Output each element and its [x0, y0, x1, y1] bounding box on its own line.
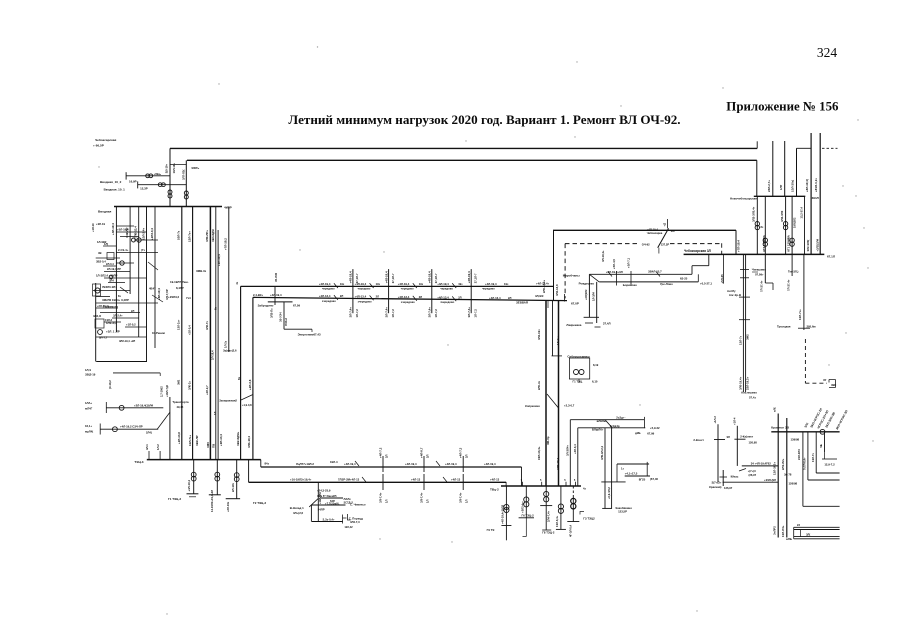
svg-text:+4Л-13: +4Л-13 — [490, 477, 500, 481]
svg-text:+2Л-0,4: +2Л-0,4 — [573, 444, 577, 454]
svg-text:+4Л-19,4: +4Л-19,4 — [349, 271, 353, 283]
svg-text:ЗЛ7-ЛЗ(: ЗЛ7-ЛЗ( — [181, 170, 185, 180]
svg-text:+2Л-13,8: +2Л-13,8 — [177, 432, 181, 444]
svg-text:+ 66,5Р: + 66,5Р — [93, 144, 104, 148]
svg-text:Вводная_10_1: Вводная_10_1 — [104, 187, 126, 191]
svg-text:2Л0-4з: 2Л0-4з — [537, 380, 541, 390]
svg-text:+4Л-19,4: +4Л-19,4 — [384, 271, 388, 283]
svg-text:2Л-0,4: 2Л-0,4 — [106, 262, 114, 266]
svg-text:394Л: 394Л — [812, 196, 819, 200]
svg-text:1ЗЛ-ЛЗ+: 1ЗЛ-ЛЗ+ — [781, 525, 785, 537]
svg-text:16,9Р: 16,9Р — [129, 179, 137, 183]
svg-text:С. Чеменсо: С. Чеменсо — [350, 503, 366, 507]
svg-text:З5-ЛЗ0: З5-ЛЗ0 — [274, 272, 278, 282]
svg-text:12Л-7з+: 12Л-7з+ — [187, 231, 191, 242]
svg-text:В-Зклад 1: В-Зклад 1 — [290, 506, 304, 510]
svg-text:8Л-7,7: 8Л-7,7 — [99, 336, 108, 340]
svg-text:07,09+: 07,09+ — [755, 273, 764, 277]
svg-text:ЗЛ: ЗЛ — [727, 435, 731, 439]
svg-text:2Л: 2Л — [458, 295, 461, 299]
svg-text:2Л-19,4 ЛР: 2Л-19,4 ЛР — [107, 267, 121, 271]
svg-text:+4Л-13: +4Л-13 — [350, 477, 360, 481]
svg-text:+4Л-13: +4Л-13 — [411, 477, 421, 481]
svg-text:1Л: 1Л — [426, 499, 430, 503]
svg-text:+7,7(21м)6,: +7,7(21м)6, — [325, 502, 340, 506]
svg-text:ЗЛ2-19,4 +2Л: ЗЛ2-19,4 +2Л — [119, 339, 135, 343]
svg-text:7з4: 7з4 — [186, 296, 191, 300]
svg-text:ЗМ0: ЗМ0 — [206, 442, 210, 448]
svg-text:ЗВ4Л-15,7: ЗВ4Л-15,7 — [648, 270, 662, 274]
svg-text:ЗЛ(: ЗЛ( — [806, 533, 810, 537]
svg-text:+4Л-13: +4Л-13 — [451, 477, 461, 481]
svg-text:ЗЛ-7,4+: ЗЛ-7,4+ — [384, 307, 388, 318]
svg-text:Транспорта: Транспорта — [172, 400, 189, 404]
svg-text:10-Реним: 10-Реним — [152, 331, 165, 335]
svg-text:ЗЛ4-19,4: ЗЛ4-19,4 — [247, 436, 251, 448]
svg-text:ЗЛ2-7з: ЗЛ2-7з — [205, 321, 209, 330]
svg-text:Чебоксарская 3Л: Чебоксарская 3Л — [684, 249, 712, 253]
svg-text:ТВц-2: ТВц-2 — [490, 488, 499, 492]
svg-text:2Л4-7,4+: 2Л4-7,4+ — [547, 510, 551, 522]
svg-text:ГЗ ТЭ: ГЗ ТЭ — [487, 528, 495, 532]
svg-text:+5Л-19,4: +5Л-19,4 — [117, 228, 129, 232]
svg-text:+0,5-27,1: +0,5-27,1 — [700, 282, 712, 286]
svg-text:27,1Л-7: 27,1Л-7 — [473, 273, 477, 283]
svg-text:+ЗЛ-19: +ЗЛ-19 — [96, 222, 105, 226]
svg-text:67,99: 67,99 — [647, 432, 654, 436]
svg-text:ЗЛ2: ЗЛ2 — [803, 422, 809, 429]
svg-text:1Л7: 1Л7 — [779, 184, 783, 190]
svg-text:1Л: 1Л — [465, 499, 469, 503]
svg-text:2Л: 2Л — [340, 294, 343, 298]
svg-text:(7з: (7з — [141, 248, 145, 252]
svg-text:19Л-13,4+: 19Л-13,4+ — [537, 446, 541, 460]
svg-text:Новочебоксарская: Новочебоксарская — [730, 197, 757, 201]
svg-text:ЗЛ-7,4+: ЗЛ-7,4+ — [379, 492, 383, 503]
svg-text:Приложение № 156: Приложение № 156 — [726, 100, 839, 114]
svg-text:Маробчаны: Маробчаны — [563, 273, 580, 277]
svg-text:67,43: 67,43 — [314, 332, 321, 336]
svg-text:Г2 ТЭЦ-3: Г2 ТЭЦ-3 — [253, 501, 266, 505]
svg-text:7ре-Лово: 7ре-Лово — [660, 282, 673, 286]
svg-text:19з: 19з — [504, 282, 509, 286]
svg-text:19з: 19з — [376, 282, 381, 286]
svg-text:67,09: 67,09 — [293, 303, 300, 307]
svg-text:ЗВ(2-19: ЗВ(2-19 — [85, 373, 96, 377]
svg-text:ЗВС: ЗВС — [831, 383, 836, 387]
svg-text:ТЭЦ-3: ТЭЦ-3 — [134, 460, 143, 464]
svg-text:4з: 4з — [583, 487, 586, 491]
svg-text:ЗЛ2-Лз: ЗЛ2-Лз — [270, 308, 274, 318]
svg-text:+4Л-19,4: +4Л-19,4 — [647, 227, 659, 231]
svg-text:2-СЗ-4+: 2-СЗ-4+ — [118, 248, 129, 252]
svg-text:8Г25: 8Г25 — [639, 478, 646, 482]
svg-text:324: 324 — [817, 45, 838, 60]
svg-text:ЗЛ-ЗЛ4+: ЗЛ-ЗЛ4+ — [566, 445, 570, 456]
svg-text:чередово: чередово — [358, 288, 371, 291]
svg-text:+19Л-ЗЛ2: +19Л-ЗЛ2 — [318, 492, 322, 504]
svg-text:+4Л-19,4: +4Л-19,4 — [319, 282, 331, 286]
svg-text:ЗЛ2-ЗЛ0: ЗЛ2-ЗЛ0 — [780, 210, 784, 222]
svg-text:19-19Л7 Реш.: 19-19Л7 Реш. — [170, 280, 189, 284]
svg-text:57,4з: 57,4з — [749, 396, 756, 400]
svg-text:2Л-19з: 2Л-19з — [231, 482, 235, 492]
svg-text:+19Л-7д5: +19Л-7д5 — [165, 384, 169, 397]
svg-text:+8ЗЛ-З,1з: +8ЗЛ-З,1з — [814, 178, 818, 192]
svg-text:+4Л-9,7: +4Л-9,7 — [420, 447, 424, 458]
svg-text:Энергоним: Энергоним — [298, 332, 314, 336]
svg-text:ЗМ2: ЗМ2 — [746, 334, 750, 340]
svg-text:27,1Л-7: 27,1Л-7 — [391, 273, 395, 283]
svg-text:+4Л-19,4: +4Л-19,4 — [484, 462, 496, 466]
svg-text:ЗЛ0-ЛР+: ЗЛ0-ЛР+ — [205, 230, 209, 242]
svg-text:54ЛР: 54ЛР — [318, 507, 325, 511]
svg-text:ЗКЛ-ЧГРЭС-ЗЛ: ЗКЛ-ЧГРЭС-ЗЛ — [835, 409, 849, 430]
svg-text:ЗМ2: ЗМ2 — [177, 379, 181, 385]
svg-text:АТ1 125МВА: АТ1 125МВА — [787, 235, 791, 252]
svg-text:Забродино: Забродино — [258, 303, 274, 307]
svg-text:1Л-7,2: 1Л-7,2 — [473, 309, 477, 318]
svg-text:+2,3-0,7: +2,3-0,7 — [564, 404, 575, 408]
svg-text:1Л-ЗЛ4: 1Л-ЗЛ4 — [592, 291, 596, 301]
svg-text:ЛЗб-2: ЛЗб-2 — [284, 318, 288, 326]
svg-text:+2Л-19,4(19Л4: +2Л-19,4(19Л4 — [134, 403, 154, 407]
svg-text:137,2Р: 137,2Р — [661, 243, 670, 247]
svg-text:ЗВ2-6ДМ+: ЗВ2-6ДМ+ — [236, 431, 240, 446]
svg-text:19з: 19з — [458, 282, 463, 286]
svg-text:2з: 2з — [235, 281, 239, 284]
svg-text:+4Л-19,4+19ЛЗ: +4Л-19,4+19ЛЗ — [500, 504, 504, 524]
svg-text:8,19: 8,19 — [593, 363, 599, 367]
svg-text:2Л: 2Л — [465, 454, 469, 458]
svg-text:2Л: 2Л — [376, 295, 379, 299]
svg-text:+4Л-13,4: +4Л-13,4 — [355, 295, 367, 299]
svg-text:8з: 8з — [761, 225, 764, 229]
svg-text:4И5Р: 4И5Р — [224, 206, 232, 210]
svg-text:+7Л-19,4: +7Л-19,4 — [737, 240, 741, 252]
svg-text:Кйхас: Кйхас — [731, 475, 739, 479]
svg-text:+1,9-0,8: +1,9-0,8 — [242, 403, 252, 407]
svg-text:З00Гь: З00Гь — [191, 166, 199, 170]
svg-text:1ЗЛ-ЗЛ2+: 1ЗЛ-ЗЛ2+ — [772, 462, 776, 475]
svg-text:2Л4(: 2Л4( — [146, 431, 152, 435]
svg-text:+4,1+17,5: +4,1+17,5 — [625, 471, 638, 475]
svg-text:З(0-19+: З(0-19+ — [164, 163, 168, 173]
svg-text:+4Л-7,2: +4Л-7,2 — [379, 447, 383, 458]
svg-text:+5Л-4,5: +5Л-4,5 — [612, 259, 616, 269]
svg-text:ЗЛ4-13,8: ЗЛ4-13,8 — [555, 284, 559, 296]
svg-text:Троицкая: Троицкая — [777, 325, 791, 329]
svg-text:+(2: +(2 — [664, 222, 667, 226]
svg-text:+4Л-2,7: +4Л-2,7 — [205, 385, 209, 395]
svg-text:Вводная_10_2: Вводная_10_2 — [100, 180, 122, 184]
svg-text:ЗЕВВАЯ: ЗЕВВАЯ — [516, 301, 528, 305]
svg-text:1ЗЛ-7з+: 1ЗЛ-7з+ — [798, 309, 802, 320]
svg-text:126,98: 126,98 — [749, 440, 758, 444]
svg-text:1з: 1з — [621, 467, 624, 471]
svg-text:(67,46: (67,46 — [650, 477, 658, 481]
svg-text:ЗЛ0-19,4+: ЗЛ0-19,4+ — [738, 376, 742, 390]
svg-text:2,7-19б2: 2,7-19б2 — [159, 386, 163, 397]
svg-text:ЗМ2Л0 19Л4+ З,4ЛР: ЗМ2Л0 19Л4+ З,4ЛР — [102, 298, 129, 302]
svg-text:+4Л-13,4: +4Л-13,4 — [398, 295, 410, 299]
svg-text:+4Л-13,4: +4Л-13,4 — [319, 294, 331, 298]
svg-text:+4Л-19,4: +4Л-19,4 — [344, 462, 356, 466]
svg-text:ЗЛ4-7,3: ЗЛ4-7,3 — [350, 520, 360, 524]
svg-text:5: 5 — [574, 479, 576, 482]
svg-text:12,3Р: 12,3Р — [140, 187, 148, 191]
svg-text:+24,3-25,9: +24,3-25,9 — [317, 489, 331, 493]
svg-text:вЛ(: вЛ( — [772, 407, 776, 412]
svg-text:+ЗЛ-7,1: +ЗЛ-7,1 — [627, 257, 631, 268]
svg-text:зчередово: зчередово — [322, 300, 336, 303]
svg-text:1Л-7,2: 1Л-7,2 — [355, 309, 359, 318]
svg-text:+1Л-0,2: +1Л-0,2 — [126, 323, 136, 327]
svg-text:1Л-ЗВ2: 1Л-ЗВ2 — [97, 240, 107, 244]
svg-text:19з: 19з — [419, 282, 424, 286]
svg-text:чередово: чередово — [482, 288, 495, 291]
svg-text:Лакреевка: Лакреевка — [566, 323, 581, 327]
svg-text:+2Л3-0,4: +2Л3-0,4 — [150, 228, 154, 240]
svg-text:2Л: 2Л — [508, 296, 511, 300]
svg-text:34 +4Л-19,4Г62: 34 +4Л-19,4Г62 — [751, 462, 772, 466]
svg-text:2Л: 2Л — [419, 295, 422, 299]
svg-text:ЗЛ-2,4+: ЗЛ-2,4+ — [113, 314, 123, 318]
svg-text:16,1+: 16,1+ — [85, 424, 92, 428]
svg-text:13,2-37,4: 13,2-37,4 — [800, 207, 804, 219]
svg-text:чередово: чередово — [440, 288, 453, 291]
svg-text:зчередово: зчередово — [401, 301, 415, 304]
svg-text:+1Л-2: +1Л-2 — [713, 416, 717, 424]
svg-text:+4Л-19,4: +4Л-19,4 — [485, 282, 497, 286]
svg-text:ЗЛ-7,4+: ЗЛ-7,4+ — [459, 492, 463, 503]
svg-text:1Л-7з+: 1Л-7з+ — [556, 336, 560, 345]
svg-text:(26,97: (26,97 — [749, 473, 757, 477]
svg-text:ЗЛ4: ЗЛ4 — [109, 279, 114, 283]
svg-text:1ЗЛ-2з+: 1ЗЛ-2з+ — [177, 319, 181, 330]
svg-text:+(7+(3: +(7+(3 — [748, 469, 756, 473]
svg-text:1ЛА+: 1ЛА+ — [85, 401, 93, 405]
svg-text:1ЗЛ-7з: 1ЗЛ-7з — [811, 453, 815, 462]
svg-text:1ЛЗ+0,2: 1ЛЗ+0,2 — [106, 321, 117, 325]
svg-text:ЗВ4-6ДМ: ЗВ4-6ДМ — [211, 229, 215, 242]
svg-text:Заовражная2: Заовражная2 — [219, 399, 237, 403]
svg-text:ЗЛ-7,4+: ЗЛ-7,4+ — [467, 307, 471, 318]
svg-text:ЗМВ-Зз: ЗМВ-Зз — [196, 269, 207, 273]
svg-text:2,4-ВЗ+: 2,4-ВЗ+ — [253, 293, 264, 297]
svg-text:2Л-19,4: 2Л-19,4 — [211, 350, 215, 360]
svg-text:139/98: 139/98 — [791, 438, 800, 442]
svg-text:+1Л-19: +1Л-19 — [91, 223, 95, 232]
svg-text:1Л-2з: 1Л-2з — [224, 340, 228, 348]
svg-text:37,4Л: 37,4Л — [603, 322, 611, 326]
svg-text:Летний минимум нагрузок 2020 г: Летний минимум нагрузок 2020 год. Вариан… — [288, 112, 680, 127]
svg-text:+7Л-19,2: +7Л-19,2 — [224, 238, 228, 250]
svg-text:19Л-4: 19Л-4 — [330, 460, 338, 464]
svg-text:2Л0-13,4+: 2Л0-13,4+ — [542, 280, 546, 293]
svg-text:+ЗЛ_1 ,ЛР: +ЗЛ_1 ,ЛР — [106, 330, 120, 334]
svg-text:Тек-ЗЛ,): Тек-ЗЛ,) — [788, 270, 798, 274]
svg-text:Чебоксарка: Чебоксарка — [647, 231, 663, 235]
svg-text:1Л: 1Л — [385, 499, 389, 503]
svg-text:Г8 ТЭЦ-2: Г8 ТЭЦ-2 — [542, 530, 555, 534]
svg-text:19з: 19з — [340, 282, 345, 286]
svg-text:6З-25: 6З-25 — [680, 277, 688, 281]
svg-text:Зм 78: Зм 78 — [784, 473, 792, 477]
svg-text:+5,9-22: +5,9-22 — [650, 426, 660, 430]
svg-text:З+ЛР2: З+ЛР2 — [772, 526, 776, 535]
svg-text:ЗЛ2-ЗЛ0(: ЗЛ2-ЗЛ0( — [806, 240, 810, 252]
svg-text:чередово: чередово — [401, 288, 414, 291]
svg-text:1Л-ЗЛ2,4 +19ЛР: 1Л-ЗЛ2,4 +19ЛР — [96, 274, 117, 278]
svg-text:+4Л-19,4: +4Л-19,4 — [355, 282, 367, 286]
svg-text:4Г-ЗЛ-0,4: 4Г-ЗЛ-0,4 — [568, 524, 572, 537]
svg-text:84з: 84з — [265, 462, 270, 466]
svg-text:126,97: 126,97 — [724, 486, 733, 490]
svg-text:ЗЛ,ЖЗ: ЗЛ,ЖЗ — [535, 294, 544, 298]
svg-text:+2Л-3,8: +2Л-3,8 — [248, 379, 252, 390]
svg-text:+8Л-19,4(: +8Л-19,4( — [805, 179, 809, 192]
svg-text:2Л: 2Л — [131, 309, 134, 313]
svg-text:2сЗд4р: 2сЗд4р — [610, 424, 620, 428]
svg-text:1ЗЛ-З0з(: 1ЗЛ-З0з( — [791, 180, 795, 192]
svg-text:дИБ: дИБ — [635, 431, 641, 435]
svg-text:8,4ЛР: 8,4ЛР — [176, 286, 184, 290]
svg-text:5: 5 — [521, 479, 523, 482]
svg-text:+2Л-19з: +2Л-19з — [226, 501, 230, 512]
svg-text:Борисово: Борисово — [623, 283, 637, 287]
svg-text:24Л-2ЛЗ: 24Л-2ЛЗ — [797, 449, 801, 460]
svg-text:зчередово: зчередово — [440, 301, 454, 304]
svg-text:10Л-7з: 10Л-7з — [177, 230, 181, 240]
svg-text:АТ2 125МВА: АТ2 125МВА — [762, 235, 766, 252]
svg-text:2-Ка(лект: 2-Ка(лект — [740, 435, 753, 439]
svg-text:вЛБ: вЛБ — [786, 537, 792, 541]
svg-text:С. Порецд: С. Порецд — [349, 516, 363, 520]
svg-text:Чигашево: Чигашево — [752, 268, 766, 272]
svg-text:1Л-7,2: 1Л-7,2 — [434, 309, 438, 318]
svg-text:67,0Р: 67,0Р — [571, 302, 579, 306]
svg-text:+09зь: +09зь — [154, 172, 162, 176]
svg-text:З,Зз-0,4+: З,Зз-0,4+ — [323, 518, 335, 522]
svg-text:2Л: 2Л — [385, 454, 389, 458]
svg-text:Копрекино: Копрекино — [525, 404, 540, 408]
svg-text:+ЗЛ2-4з+: +ЗЛ2-4з+ — [520, 501, 524, 513]
svg-text:1Л: 1Л — [213, 412, 217, 415]
svg-text:+4Л-7,3: +4Л-7,3 — [459, 447, 463, 458]
svg-text:ЗЛ-7,4+: ЗЛ-7,4+ — [420, 492, 424, 503]
svg-text:+1Л-4: +1Л-4 — [733, 417, 737, 425]
svg-text:Вводная: Вводная — [98, 210, 111, 214]
svg-text:24Л-2,7+: 24Л-2,7+ — [767, 180, 771, 192]
svg-text:З5-УЗЧ: З5-УЗЧ — [279, 312, 283, 322]
svg-text:7с7Л-6,4+: 7с7Л-6,4+ — [803, 457, 807, 470]
svg-text:1Л-7,2: 1Л-7,2 — [391, 309, 395, 318]
svg-text:ЗЛ-7,4+: ЗЛ-7,4+ — [349, 307, 353, 318]
svg-text:Красная): Красная) — [709, 485, 721, 489]
svg-text:Г1 ТЭЦ-3: Г1 ТЭЦ-3 — [168, 497, 181, 501]
svg-text:2ЛЗ-Л2+: 2ЛЗ-Л2+ — [781, 458, 785, 470]
svg-text:+2Л(ЗЛ2: +2Л(ЗЛ2 — [584, 289, 588, 300]
svg-text:+4Л-19,4: +4Л-19,4 — [467, 271, 471, 283]
svg-text:+ЗЛ2(ЗЛ4: +ЗЛ2(ЗЛ4 — [815, 239, 819, 252]
svg-text:+1Л-19,4: +1Л-19,4 — [217, 254, 221, 266]
svg-text:+4Л-19,4: +4Л-19,4 — [398, 282, 410, 286]
svg-text:+4Л-19,4: +4Л-19,4 — [111, 223, 115, 235]
svg-text:ГЗ ТЭЦ2: ГЗ ТЭЦ2 — [583, 517, 595, 521]
svg-text:+ЗЗЛ-(9Л: +ЗЗЛ-(9Л — [764, 478, 776, 482]
svg-text:7Л-27,4+: 7Л-27,4+ — [759, 280, 763, 292]
svg-text:мЛ4Г: мЛ4Г — [85, 407, 93, 411]
svg-text:+4Л-13,4: +4Л-13,4 — [489, 296, 501, 300]
svg-text:Чебоксарская: Чебоксарская — [95, 138, 117, 142]
svg-text:ЗЛ2-ЗЛ0,4+: ЗЛ2-ЗЛ0,4+ — [752, 206, 756, 222]
svg-text:126/98: 126/98 — [789, 482, 798, 486]
svg-text:ЗЛ4-19з: ЗЛ4-19з — [537, 329, 541, 340]
svg-text:ЗЛ0-2з: ЗЛ0-2з — [187, 381, 191, 390]
svg-text:Горремонт: Горремонт — [103, 305, 119, 309]
svg-text:ЗВ2-0,4: ЗВ2-0,4 — [96, 260, 106, 264]
svg-text:1ЗЛ-2,4+: 1ЗЛ-2,4+ — [141, 228, 145, 240]
svg-text:49,45: 49,45 — [177, 405, 184, 409]
svg-text:2ЗЛ-19,2+: 2ЗЛ-19,2+ — [746, 376, 750, 390]
svg-text:ЗВ: ЗВ — [98, 251, 102, 255]
svg-text:ЛцЛ77+19Л-2: ЛцЛ77+19Л-2 — [296, 462, 314, 466]
svg-text:Зу(ево(2,6: Зу(ево(2,6 — [223, 349, 237, 353]
svg-text:1Л,З: 1Л,З — [85, 368, 91, 372]
svg-text:12,9-7,2: 12,9-7,2 — [824, 463, 835, 467]
svg-text:+2ЗЛ3,2: +2ЗЛ3,2 — [168, 295, 179, 299]
svg-text:+0,9-ЗЛ,2: +0,9-ЗЛ,2 — [607, 487, 611, 499]
svg-text:2Л: 2Л — [426, 454, 430, 458]
svg-text:7В2Л0-ЗЛ4: 7В2Л0-ЗЛ4 — [102, 285, 117, 289]
svg-text:7Л-27,4+: 7Л-27,4+ — [786, 279, 790, 291]
svg-text:(З-19,2: (З-19,2 — [108, 380, 112, 389]
svg-text:ЗЛ0-19,4: ЗЛ0-19,4 — [556, 458, 560, 470]
svg-text:1ЗЛ-7з+: 1ЗЛ-7з+ — [188, 435, 192, 446]
svg-text:7ЛЗР-2М: 7ЛЗР-2М — [338, 478, 351, 482]
svg-text:мрЛ4(: мрЛ4( — [85, 429, 93, 433]
svg-text:4В47: 4В47 — [149, 287, 156, 291]
svg-text:ЧБ: ЧБ — [819, 444, 823, 448]
svg-text:ЗЛ4,О: ЗЛ4,О — [93, 314, 102, 318]
svg-text:+1б-19ЛЗ+19,4+: +1б-19ЛЗ+19,4+ — [290, 478, 312, 482]
svg-text:14-19ЛЗ+19,4+2Л: 14-19ЛЗ+19,4+2Л — [210, 490, 214, 512]
svg-text:2сЗд+-: 2сЗд+- — [616, 416, 625, 420]
svg-text:23: 23 — [797, 523, 800, 527]
svg-text:Альгешево: Альгешево — [741, 391, 757, 395]
svg-text:зчередово: зчередово — [358, 300, 372, 303]
svg-text:ЗУ: ЗУ — [823, 378, 827, 382]
svg-text:5: 5 — [540, 479, 542, 482]
svg-text:ЗЛ-19,4+: ЗЛ-19,4+ — [601, 250, 605, 262]
svg-text:ПВ: ПВ — [211, 444, 215, 448]
svg-text:+9Л-13,4: +9Л-13,4 — [219, 434, 223, 446]
svg-text:ОЧ-92: ОЧ-92 — [642, 243, 650, 247]
svg-text:чередово: чередово — [322, 288, 335, 291]
svg-text:Рождество: Рождество — [579, 282, 595, 286]
svg-text:+4Л-19,2 СЗЧ-ЛР: +4Л-19,2 СЗЧ-ЛР — [120, 425, 143, 429]
svg-text:+4Л-19,4: +4Л-19,4 — [428, 271, 432, 283]
svg-text:67,1Л: 67,1Л — [827, 255, 835, 259]
svg-text:ВЛфЛ6+: ВЛфЛ6+ — [592, 427, 604, 431]
svg-text:+4Л-19,4: +4Л-19,4 — [445, 462, 457, 466]
svg-text:+2Л-0,4: +2Л-0,4 — [187, 325, 191, 335]
svg-text:ЗЛ9-ЗЛ-2,4: ЗЛ9-ЗЛ-2,4 — [600, 445, 604, 460]
svg-text:19Л(ЗЛ2: 19Л(ЗЛ2 — [793, 217, 797, 228]
svg-text:4Л-1: 4Л-1 — [145, 444, 149, 450]
svg-text:ЗВК-ЛР: ЗВК-ЛР — [195, 435, 199, 446]
